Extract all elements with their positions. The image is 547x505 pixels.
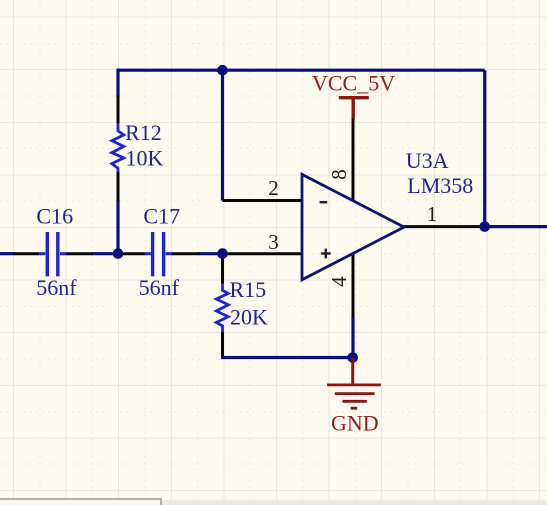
svg-text:2: 2: [268, 176, 279, 200]
svg-text:GND: GND: [331, 410, 379, 435]
svg-text:VCC_5V: VCC_5V: [312, 70, 395, 95]
svg-text:56nf: 56nf: [36, 275, 77, 300]
svg-text:LM358: LM358: [407, 173, 473, 198]
svg-text:C16: C16: [36, 204, 73, 229]
svg-text:R12: R12: [125, 120, 162, 145]
svg-text:U3A: U3A: [406, 148, 449, 173]
svg-text:8: 8: [327, 169, 351, 180]
svg-text:20K: 20K: [230, 305, 268, 330]
svg-text:1: 1: [427, 202, 438, 226]
svg-text:56nf: 56nf: [139, 275, 180, 300]
svg-text:R15: R15: [230, 277, 267, 302]
svg-text:4: 4: [327, 276, 351, 287]
svg-text:10K: 10K: [126, 146, 164, 171]
svg-text:C17: C17: [143, 204, 180, 229]
svg-text:3: 3: [268, 230, 279, 254]
